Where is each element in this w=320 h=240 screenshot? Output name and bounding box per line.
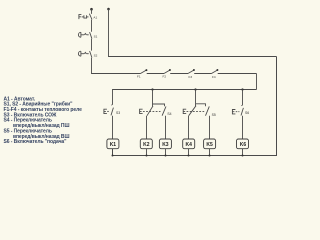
thermal contact F1 (141, 69, 165, 73)
coil designators (110, 142, 247, 148)
coil K1 (107, 139, 119, 149)
wire K5 to bottom bus (209, 149, 211, 156)
switch S6 (232, 105, 243, 115)
wire K3 to bottom bus (165, 149, 167, 156)
junction S6 branch (241, 88, 243, 90)
thermal contact F4 (212, 69, 257, 74)
coil K6 (237, 139, 249, 149)
coil K3 (159, 139, 171, 149)
switch S4 changeover (140, 104, 166, 116)
svg-text:S3: S3 (116, 111, 120, 115)
legend text block (4, 96, 83, 145)
svg-text:F1: F1 (137, 75, 141, 79)
thermal contact F2 (164, 69, 188, 74)
svg-text:F2: F2 (163, 75, 167, 79)
wire K6 to bottom bus (242, 149, 244, 156)
wire S4 feed (152, 90, 154, 105)
wire S4a to K2 (146, 116, 148, 139)
wire S3 to K1 (112, 116, 114, 139)
svg-text:K1: K1 (110, 142, 117, 148)
junction S4 feed (151, 88, 153, 90)
junction S5 feed (194, 88, 196, 90)
wire (91, 20, 93, 32)
svg-text:F4: F4 (212, 75, 216, 79)
svg-text:S2: S2 (94, 53, 98, 57)
emergency mushroom S1 (78, 32, 92, 39)
branch bus (113, 90, 257, 105)
svg-text:S6: S6 (245, 111, 249, 115)
wire S5b to K5 (209, 116, 211, 139)
coil K5 (204, 139, 216, 149)
component reference labels (93, 15, 215, 79)
wire N down, top horizontal, right rail, bottom bus (109, 9, 277, 57)
wire K1 to bottom bus (112, 149, 114, 156)
svg-text:K4: K4 (185, 142, 192, 148)
wire K2 to bottom bus (146, 149, 148, 156)
wire (91, 39, 93, 51)
svg-text:S1: S1 (94, 35, 98, 39)
svg-text:А1: А1 (93, 15, 97, 19)
svg-text:K5: K5 (206, 142, 213, 148)
coil K4 (183, 139, 195, 149)
svg-text:F3: F3 (189, 75, 193, 79)
wire S4b to K3 (165, 116, 167, 139)
switch S5 changeover (183, 104, 209, 116)
svg-text:K2: K2 (143, 142, 150, 148)
node N terminal and return rail (107, 8, 110, 11)
thermal contact F3 (188, 69, 212, 74)
svg-text:K3: K3 (162, 142, 169, 148)
svg-text:S6 - Включатель "подача": S6 - Включатель "подача" (4, 139, 68, 145)
svg-text:K6: K6 (240, 142, 247, 148)
wire S6 to K6 (242, 116, 244, 139)
wire K4 to bottom bus (188, 149, 190, 156)
svg-text:S5: S5 (212, 113, 216, 117)
wire F-line drop to branch bus (256, 74, 258, 90)
wire left chain down to F-line (92, 58, 141, 74)
switch S3 (104, 105, 114, 116)
wire S6 branch (242, 90, 244, 106)
node L top terminal (90, 8, 93, 11)
automat A1 (79, 14, 92, 20)
wire S5a to K4 (188, 116, 190, 139)
coil K2 (140, 139, 152, 149)
wire S5 feed (195, 90, 197, 104)
wire (91, 9, 93, 14)
emergency mushroom S2 (78, 51, 92, 58)
svg-text:S4: S4 (167, 112, 171, 116)
